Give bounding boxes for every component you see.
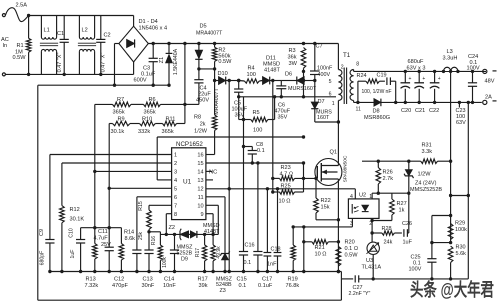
svg-text:R15: R15 bbox=[138, 201, 144, 211]
svg-text:R13: R13 bbox=[86, 277, 96, 283]
svg-text:76.8k: 76.8k bbox=[286, 283, 300, 289]
svg-text:C15: C15 bbox=[237, 277, 247, 283]
svg-text:1.5KE440A: 1.5KE440A bbox=[173, 48, 179, 75]
svg-text:U1: U1 bbox=[183, 179, 192, 186]
svg-text:Z4 (24V): Z4 (24V) bbox=[415, 181, 437, 187]
svg-text:R6: R6 bbox=[149, 97, 156, 103]
svg-text:MRA4007T: MRA4007T bbox=[196, 31, 223, 37]
svg-text:100V: 100V bbox=[409, 267, 422, 273]
svg-text:36k: 36k bbox=[288, 55, 297, 61]
svg-text:24k: 24k bbox=[384, 239, 393, 245]
svg-text:C21: C21 bbox=[415, 108, 425, 114]
svg-text:2.2nF "Y": 2.2nF "Y" bbox=[349, 291, 371, 297]
svg-text:D7: D7 bbox=[318, 99, 325, 105]
svg-text:MURS160T: MURS160T bbox=[288, 86, 317, 92]
svg-text:2.7k: 2.7k bbox=[383, 176, 394, 182]
svg-text:16: 16 bbox=[197, 153, 203, 159]
svg-text:15: 15 bbox=[197, 161, 203, 167]
svg-text:C26: C26 bbox=[402, 221, 412, 227]
svg-text:1: 1 bbox=[369, 194, 372, 200]
svg-text:C7: C7 bbox=[316, 44, 323, 50]
svg-text:1uF: 1uF bbox=[403, 239, 413, 245]
svg-text:SPA08N50C: SPA08N50C bbox=[343, 155, 349, 182]
svg-text:R8: R8 bbox=[194, 115, 201, 121]
svg-text:2A: 2A bbox=[485, 94, 492, 100]
svg-text:0.1 Ω: 0.1 Ω bbox=[345, 246, 359, 252]
svg-text:R30: R30 bbox=[456, 245, 466, 251]
svg-text:1: 1 bbox=[332, 101, 335, 107]
svg-text:8.6k: 8.6k bbox=[125, 236, 136, 242]
svg-text:R16: R16 bbox=[151, 236, 157, 245]
svg-text:+: + bbox=[438, 76, 441, 82]
svg-text:R11: R11 bbox=[166, 117, 176, 123]
svg-text:R4: R4 bbox=[248, 66, 255, 72]
svg-text:C19: C19 bbox=[377, 72, 387, 78]
svg-text:365k: 365k bbox=[113, 110, 125, 116]
svg-text:R31: R31 bbox=[422, 143, 432, 149]
svg-text:0.1uF: 0.1uF bbox=[258, 283, 273, 289]
svg-text:R10: R10 bbox=[142, 117, 152, 123]
svg-text:10 Ω: 10 Ω bbox=[279, 199, 291, 205]
svg-text:8: 8 bbox=[356, 62, 359, 68]
svg-text:R9: R9 bbox=[118, 117, 125, 123]
svg-text:30.1k: 30.1k bbox=[111, 129, 125, 135]
svg-text:3W: 3W bbox=[289, 61, 298, 67]
svg-text:1/2W: 1/2W bbox=[418, 172, 432, 178]
svg-text:R28: R28 bbox=[382, 226, 392, 232]
svg-text:160T: 160T bbox=[317, 115, 330, 121]
svg-text:0.47 "X": 0.47 "X" bbox=[101, 53, 107, 73]
svg-text:D6: D6 bbox=[285, 72, 292, 78]
svg-text:14: 14 bbox=[197, 170, 203, 176]
svg-text:1N5406 x 4: 1N5406 x 4 bbox=[139, 26, 168, 32]
svg-text:+: + bbox=[409, 76, 412, 82]
svg-text:680pF: 680pF bbox=[40, 251, 46, 266]
svg-text:2.5A: 2.5A bbox=[16, 2, 28, 8]
svg-text:4148T: 4148T bbox=[204, 229, 220, 235]
svg-text:100nF: 100nF bbox=[317, 65, 333, 71]
svg-text:nF: nF bbox=[386, 89, 392, 95]
svg-text:4: 4 bbox=[174, 178, 177, 184]
svg-text:C22: C22 bbox=[429, 108, 439, 114]
svg-text:13: 13 bbox=[197, 178, 203, 184]
svg-text:100: 100 bbox=[247, 72, 256, 78]
svg-text:7: 7 bbox=[174, 204, 177, 210]
svg-text:0.5W: 0.5W bbox=[218, 59, 232, 65]
svg-text:R1: R1 bbox=[17, 43, 24, 49]
svg-text:0.1: 0.1 bbox=[257, 148, 265, 154]
svg-text:R20: R20 bbox=[345, 240, 355, 246]
svg-text:600V: 600V bbox=[134, 78, 147, 84]
svg-text:C1: C1 bbox=[57, 31, 64, 37]
svg-text:11: 11 bbox=[198, 195, 204, 201]
svg-text:5: 5 bbox=[329, 79, 332, 85]
svg-text:NC: NC bbox=[209, 170, 217, 176]
svg-text:48V: 48V bbox=[485, 78, 495, 84]
svg-text:R23: R23 bbox=[281, 165, 291, 171]
svg-text:15k: 15k bbox=[321, 205, 330, 211]
svg-text:35V: 35V bbox=[278, 115, 288, 121]
svg-text:100k: 100k bbox=[162, 257, 168, 268]
svg-text:D9: D9 bbox=[181, 257, 188, 263]
svg-text:C18: C18 bbox=[271, 247, 281, 253]
svg-text:2k: 2k bbox=[200, 122, 206, 128]
svg-text:Z1: Z1 bbox=[159, 57, 165, 63]
svg-text:Z3: Z3 bbox=[220, 288, 226, 294]
svg-text:R5: R5 bbox=[253, 110, 260, 116]
svg-text:0.1: 0.1 bbox=[244, 260, 252, 266]
svg-text:D5: D5 bbox=[200, 24, 207, 30]
svg-text:R3: R3 bbox=[289, 48, 296, 54]
svg-text:4148T: 4148T bbox=[264, 67, 280, 73]
svg-text:100V: 100V bbox=[467, 66, 480, 72]
svg-text:0.47 "X": 0.47 "X" bbox=[57, 53, 63, 73]
svg-text:4.7uF: 4.7uF bbox=[94, 236, 109, 242]
svg-text:C14: C14 bbox=[164, 277, 174, 283]
svg-text:10: 10 bbox=[197, 204, 203, 210]
svg-text:Z2: Z2 bbox=[169, 225, 176, 231]
svg-text:7.32k: 7.32k bbox=[85, 283, 99, 289]
svg-text:6: 6 bbox=[329, 92, 332, 98]
svg-text:+: + bbox=[422, 76, 425, 82]
svg-text:C9: C9 bbox=[39, 229, 45, 236]
svg-text:NCP1652: NCP1652 bbox=[176, 141, 203, 148]
svg-text:In: In bbox=[3, 43, 8, 49]
svg-text:R27: R27 bbox=[397, 201, 407, 207]
svg-text:R22: R22 bbox=[321, 198, 331, 204]
svg-text:11: 11 bbox=[356, 107, 361, 113]
svg-text:25V: 25V bbox=[101, 242, 111, 248]
svg-text:63V x 3: 63V x 3 bbox=[407, 65, 426, 71]
svg-text:470pF: 470pF bbox=[112, 283, 128, 289]
svg-text:Q1: Q1 bbox=[330, 150, 337, 156]
svg-text:365k: 365k bbox=[144, 110, 156, 116]
svg-text:MMSZ5252B: MMSZ5252B bbox=[410, 187, 442, 193]
svg-text:1nF: 1nF bbox=[267, 262, 277, 268]
svg-text:头条 @大年君: 头条 @大年君 bbox=[410, 279, 494, 300]
svg-text:39k: 39k bbox=[199, 283, 208, 289]
svg-text:R24: R24 bbox=[357, 73, 367, 79]
svg-text:30.1K: 30.1K bbox=[70, 217, 85, 223]
svg-text:4.7 Ω: 4.7 Ω bbox=[280, 171, 294, 177]
svg-text:450V: 450V bbox=[196, 98, 209, 104]
svg-text:2: 2 bbox=[341, 65, 344, 71]
svg-text:C2: C2 bbox=[104, 33, 111, 39]
svg-text:MRA4007T: MRA4007T bbox=[214, 88, 220, 115]
svg-text:R14: R14 bbox=[124, 230, 134, 236]
svg-text:R17: R17 bbox=[195, 248, 201, 257]
svg-text:0.5W: 0.5W bbox=[13, 55, 27, 61]
svg-text:332k: 332k bbox=[138, 129, 150, 135]
svg-text:400V: 400V bbox=[318, 72, 331, 78]
svg-text:C11: C11 bbox=[98, 229, 108, 235]
svg-text:100: 100 bbox=[253, 128, 262, 134]
svg-text:R26: R26 bbox=[383, 170, 393, 176]
svg-text:49.9k: 49.9k bbox=[216, 246, 222, 259]
svg-text:L3: L3 bbox=[447, 49, 453, 55]
svg-text:R19: R19 bbox=[288, 277, 298, 283]
svg-text:1/2W: 1/2W bbox=[194, 129, 208, 135]
svg-text:R17: R17 bbox=[198, 277, 208, 283]
svg-text:U2: U2 bbox=[359, 193, 366, 199]
svg-text:T1: T1 bbox=[343, 52, 351, 59]
svg-text:L2: L2 bbox=[82, 28, 88, 34]
svg-text:10 Ω: 10 Ω bbox=[315, 252, 327, 258]
svg-text:R25: R25 bbox=[281, 184, 291, 190]
svg-text:3.3k: 3.3k bbox=[422, 149, 433, 155]
svg-text:8: 8 bbox=[174, 212, 177, 218]
svg-text:12: 12 bbox=[197, 187, 203, 193]
svg-text:C10: C10 bbox=[69, 228, 75, 238]
svg-text:R21: R21 bbox=[315, 245, 325, 251]
svg-text:10nF: 10nF bbox=[163, 283, 176, 289]
svg-text:C16: C16 bbox=[245, 243, 255, 249]
svg-text:C17: C17 bbox=[262, 277, 272, 283]
svg-text:5.6k: 5.6k bbox=[456, 251, 467, 257]
svg-text:30nF: 30nF bbox=[142, 283, 155, 289]
svg-text:365k: 365k bbox=[162, 129, 174, 135]
svg-text:100k: 100k bbox=[455, 227, 467, 233]
svg-text:D1 - D4: D1 - D4 bbox=[139, 19, 158, 25]
svg-text:TL431A: TL431A bbox=[362, 264, 382, 270]
svg-text:U3: U3 bbox=[366, 258, 373, 264]
svg-text:0.1: 0.1 bbox=[239, 283, 247, 289]
svg-text:C12: C12 bbox=[114, 277, 124, 283]
svg-text:D10: D10 bbox=[218, 71, 228, 77]
svg-text:25k: 25k bbox=[138, 231, 144, 240]
svg-text:9: 9 bbox=[200, 212, 203, 218]
svg-text:100, 1/2W: 100, 1/2W bbox=[362, 89, 385, 95]
svg-text:63V: 63V bbox=[456, 120, 466, 126]
svg-text:R12: R12 bbox=[70, 207, 80, 213]
svg-text:R29: R29 bbox=[455, 221, 465, 227]
svg-text:6: 6 bbox=[174, 195, 177, 201]
svg-text:1k: 1k bbox=[399, 207, 405, 213]
svg-text:D8: D8 bbox=[373, 109, 380, 115]
svg-text:3.3uH: 3.3uH bbox=[443, 55, 458, 61]
svg-text:680uF: 680uF bbox=[408, 59, 424, 65]
svg-text:4: 4 bbox=[350, 194, 353, 200]
svg-text:3: 3 bbox=[174, 170, 177, 176]
svg-text:C20: C20 bbox=[401, 108, 411, 114]
svg-text:L1: L1 bbox=[44, 28, 50, 34]
svg-text:0.5W: 0.5W bbox=[345, 253, 359, 259]
svg-text:R7: R7 bbox=[117, 97, 124, 103]
svg-text:2: 2 bbox=[174, 161, 177, 167]
svg-text:MSR860G: MSR860G bbox=[364, 115, 390, 121]
svg-text:5: 5 bbox=[174, 187, 177, 193]
svg-text:C13: C13 bbox=[143, 277, 153, 283]
svg-text:1: 1 bbox=[174, 153, 177, 159]
svg-text:1uF: 1uF bbox=[70, 250, 76, 259]
